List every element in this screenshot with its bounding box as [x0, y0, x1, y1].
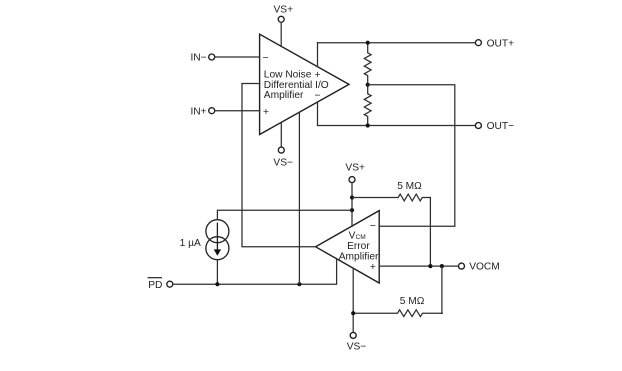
wire U1 bottom edge shutdown line down to PD rail — [298, 112, 300, 284]
junction dot lower 5M / VOCM row — [440, 264, 444, 268]
svg-text:VS−: VS− — [347, 342, 367, 353]
svg-text:OUT−: OUT− — [487, 121, 515, 132]
svg-text:VCM: VCM — [349, 230, 366, 241]
svg-text:VS+: VS+ — [274, 5, 294, 16]
terminal VOCM — [459, 262, 500, 273]
terminal PD (power down, active low) — [148, 278, 173, 291]
wire U2 output to U1 common-mode control input — [242, 84, 316, 247]
resistor 5 MOhm (lower) — [353, 296, 442, 317]
resistor 5 MOhm (upper) — [352, 181, 430, 201]
junction dot PD / current source — [215, 282, 219, 286]
svg-text:−: − — [315, 90, 321, 101]
wire U1 - output tap to bottom rail — [317, 103, 319, 126]
op-amp U1 Low Noise Differential I/O Amplifier — [260, 34, 349, 134]
terminal IN+ — [190, 106, 214, 117]
wire VS+ stub down to U2 top edge — [351, 183, 353, 226]
terminal VS+ (error amplifier) — [345, 162, 365, 182]
junction dot bottom rail / divider — [366, 123, 370, 127]
wire U2 bottom edge down to VS- terminal — [352, 268, 354, 332]
junction dot VS- / lower 5M resistor — [351, 311, 355, 315]
junction dot PD / U1 shutdown line — [297, 282, 301, 286]
svg-text:IN−: IN− — [190, 53, 206, 64]
wire upper 5M resistor down to VOCM node — [429, 198, 431, 267]
svg-text:+: + — [263, 107, 269, 118]
terminal VS- (error amplifier) — [347, 332, 367, 352]
svg-text:Amplifier: Amplifier — [264, 90, 304, 101]
svg-text:Error: Error — [347, 241, 370, 252]
terminal IN- — [190, 53, 214, 64]
wire PD rail to U2 bottom edge — [173, 259, 336, 285]
svg-text:VS−: VS− — [273, 158, 293, 169]
wire current source top to VS+ rail — [217, 210, 352, 220]
svg-text:IN+: IN+ — [190, 106, 206, 117]
svg-text:VS+: VS+ — [345, 162, 365, 173]
wire VS+ stub to U1 top edge — [280, 23, 282, 47]
svg-text:+: + — [315, 70, 321, 81]
resistor (lower feedback divider) — [364, 85, 371, 126]
svg-text:−: − — [370, 221, 376, 232]
wire IN+ to U1 non-inverting input — [215, 110, 260, 112]
terminal VS- (main amplifier) — [273, 147, 293, 169]
junction dot upper 5M / VOCM row — [428, 264, 432, 268]
wire U1 + output tap to top rail — [317, 43, 319, 67]
wire U1 bottom edge to VS- stub — [280, 122, 282, 146]
wire error amp inverting input row — [379, 225, 455, 227]
svg-text:−: − — [263, 53, 269, 64]
terminal OUT+ — [475, 38, 514, 49]
svg-text:5 MΩ: 5 MΩ — [397, 181, 422, 192]
current source 1 uA — [180, 220, 229, 260]
junction dot divider midpoint — [366, 83, 370, 87]
wire top rail to OUT+ — [318, 42, 476, 44]
op-amp U2 VCM Error Amplifier — [316, 211, 380, 283]
svg-text:PD: PD — [148, 280, 162, 291]
wire VOCM node down to lower 5M resistor — [441, 266, 443, 313]
wire bottom rail to OUT- — [318, 125, 476, 127]
svg-text:5 MΩ: 5 MΩ — [400, 296, 425, 307]
terminal VS+ (main amplifier) — [274, 5, 294, 23]
svg-text:VOCM: VOCM — [469, 262, 500, 273]
wire current source bottom to PD rail — [216, 260, 218, 285]
svg-text:+: + — [370, 262, 376, 273]
svg-text:1 µA: 1 µA — [180, 238, 201, 249]
junction dot VS+ / current source rail — [350, 208, 354, 212]
svg-text:OUT+: OUT+ — [487, 38, 515, 49]
junction dot top rail / divider — [366, 41, 370, 45]
svg-text:Amplifier: Amplifier — [339, 252, 379, 263]
wire IN- to U1 inverting input — [215, 56, 260, 58]
junction dot VS+ / 5M resistor — [350, 195, 354, 199]
terminal OUT- — [475, 121, 514, 132]
resistor (upper feedback divider) — [364, 43, 371, 85]
wire divider midpoint to error amp inverting input (common-mode sense) — [368, 85, 455, 227]
wire U2 non-inverting input row to VOCM terminal — [379, 265, 458, 267]
